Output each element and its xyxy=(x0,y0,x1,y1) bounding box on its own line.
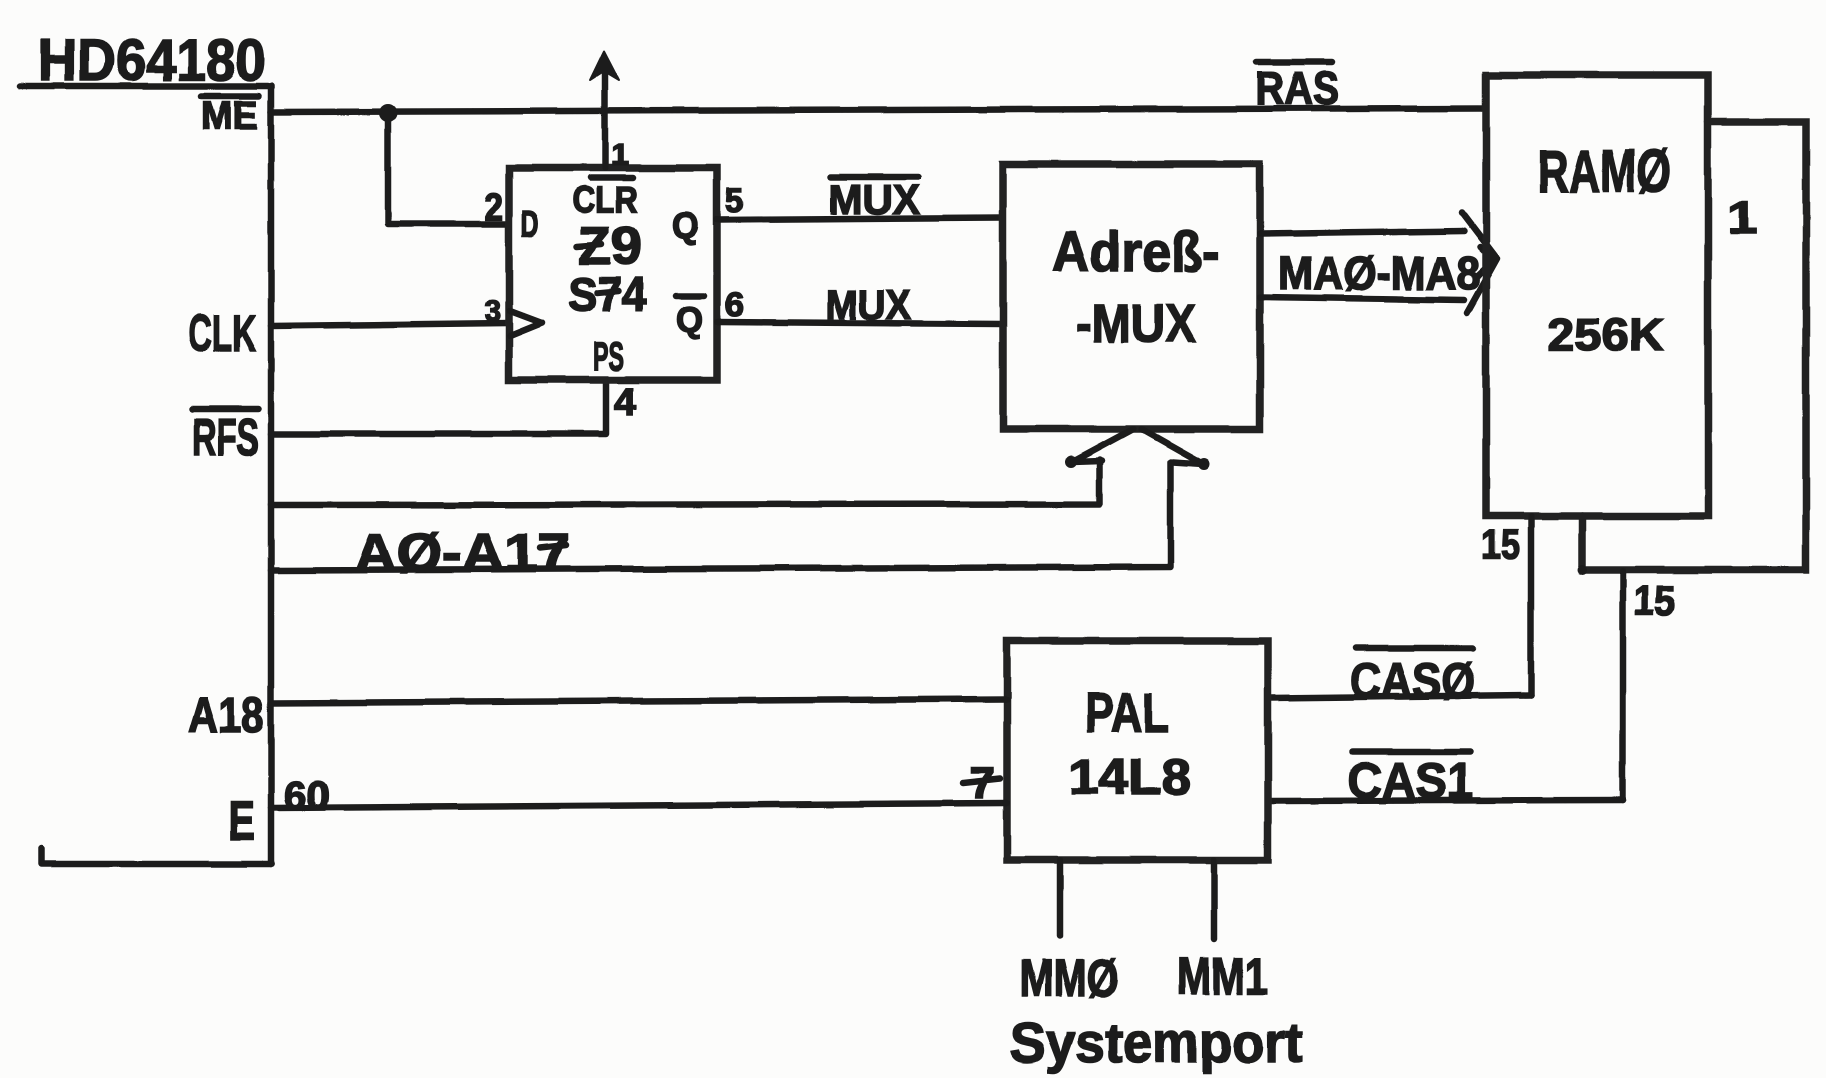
svg-text:15: 15 xyxy=(1481,521,1520,568)
RAM0 box xyxy=(1486,75,1708,516)
svg-text:MUX: MUX xyxy=(828,176,920,223)
RAM1 shadow box xyxy=(1582,122,1806,570)
pin wire MM1 xyxy=(1211,860,1218,939)
svg-text:60: 60 xyxy=(284,774,330,818)
wire A18 xyxy=(271,699,1007,703)
wire CAS0 xyxy=(1271,695,1531,698)
wire RFS to PS pin xyxy=(271,381,606,434)
svg-text:2: 2 xyxy=(484,187,503,229)
label RFS (overlined) xyxy=(192,406,258,413)
svg-text:5: 5 xyxy=(725,182,743,220)
svg-text:PS: PS xyxy=(593,335,624,379)
svg-text:D: D xyxy=(521,203,539,244)
crossbar on 7 of S74 xyxy=(597,291,618,293)
label RAS (overlined) xyxy=(1256,59,1332,66)
label CAS1 (overlined) xyxy=(1353,749,1470,756)
Adress-MUX box U2 xyxy=(1003,164,1260,429)
bus A0-A17 line 1 xyxy=(271,460,1100,505)
arrow up on CLR pin xyxy=(590,51,619,80)
pin label Qbar (overlined) xyxy=(676,293,704,300)
svg-text:6: 6 xyxy=(725,286,745,324)
node blob RAM1 corner xyxy=(1577,565,1587,575)
svg-text:AØ-A17: AØ-A17 xyxy=(354,523,570,583)
wire E xyxy=(271,803,1007,808)
svg-text:Q: Q xyxy=(672,205,699,246)
svg-text:RAS: RAS xyxy=(1255,62,1339,114)
svg-text:A18: A18 xyxy=(188,687,264,743)
wire Qbar to Adress-MUX (MUX) xyxy=(717,322,1003,324)
label MUX (overlined) xyxy=(830,174,918,181)
label CAS0 (overlined) xyxy=(1356,645,1473,652)
crossbar on Z of Z9 xyxy=(577,244,602,246)
wire CAS1 xyxy=(1271,800,1623,801)
svg-text:256K: 256K xyxy=(1547,309,1665,360)
flip-flop Z9 S74 box xyxy=(509,168,717,380)
svg-text:1: 1 xyxy=(611,139,629,172)
wire CPU right-edge vertical bus xyxy=(268,86,275,864)
wire CLR pin 1 to pull-up arrow xyxy=(602,64,609,168)
wire ME / RAS net xyxy=(271,108,1486,112)
svg-text:CASØ: CASØ xyxy=(1350,653,1475,709)
bus entry hollow arrow into Adress-MUX xyxy=(1072,429,1133,462)
clock input triangle xyxy=(510,311,542,336)
svg-text:CLR: CLR xyxy=(572,179,638,220)
svg-text:3: 3 xyxy=(485,295,501,328)
svg-text:CAS1: CAS1 xyxy=(1348,753,1473,809)
svg-text:CLK: CLK xyxy=(188,305,256,363)
svg-text:-MUX: -MUX xyxy=(1076,294,1196,354)
svg-text:1: 1 xyxy=(1727,192,1757,244)
svg-text:E: E xyxy=(228,789,255,852)
svg-text:RFS: RFS xyxy=(192,409,259,467)
bus MA0-MA8 arrow shaft xyxy=(1260,231,1464,234)
svg-text:15: 15 xyxy=(1634,577,1675,624)
arrowhead chevron MA bus xyxy=(1462,213,1497,313)
svg-text:Q: Q xyxy=(676,299,703,340)
svg-text:RAMØ: RAMØ xyxy=(1537,138,1671,205)
svg-text:Adreß-: Adreß- xyxy=(1052,220,1220,283)
PAL 14L8 box xyxy=(1007,641,1268,860)
wire CPU bottom step xyxy=(42,849,271,864)
label ME (overlined) xyxy=(201,93,259,100)
svg-text:4: 4 xyxy=(614,382,636,424)
svg-text:S74: S74 xyxy=(568,269,646,322)
wire CAS1 vertical to RAM1 xyxy=(1620,571,1627,800)
svg-text:MUX: MUX xyxy=(826,281,911,328)
svg-text:PAL: PAL xyxy=(1085,681,1169,744)
label CLR (overlined) xyxy=(590,175,633,182)
pin wire MM0 xyxy=(1057,860,1064,936)
wire CLK xyxy=(271,323,509,326)
wire Q to Adress-MUX (MUXbar) xyxy=(717,218,1003,220)
svg-text:ME: ME xyxy=(201,94,258,138)
svg-text:MM1: MM1 xyxy=(1177,948,1268,1006)
svg-text:MAØ-MA8: MAØ-MA8 xyxy=(1278,247,1480,299)
crossbar on pin 7 xyxy=(963,779,1000,783)
node junction on ME wire xyxy=(379,104,397,122)
svg-text:14L8: 14L8 xyxy=(1069,749,1191,805)
wire junction to D input xyxy=(388,113,509,224)
svg-text:MMØ: MMØ xyxy=(1019,950,1119,1008)
svg-text:Systemport: Systemport xyxy=(1010,1011,1303,1074)
wire CAS0 vertical to RAM0 xyxy=(1528,516,1535,695)
crossbar on 7 of A17 xyxy=(540,545,566,548)
wire HD64180 underline / CPU edge xyxy=(20,83,268,90)
bus A0-A17 line 2 xyxy=(271,462,1170,570)
